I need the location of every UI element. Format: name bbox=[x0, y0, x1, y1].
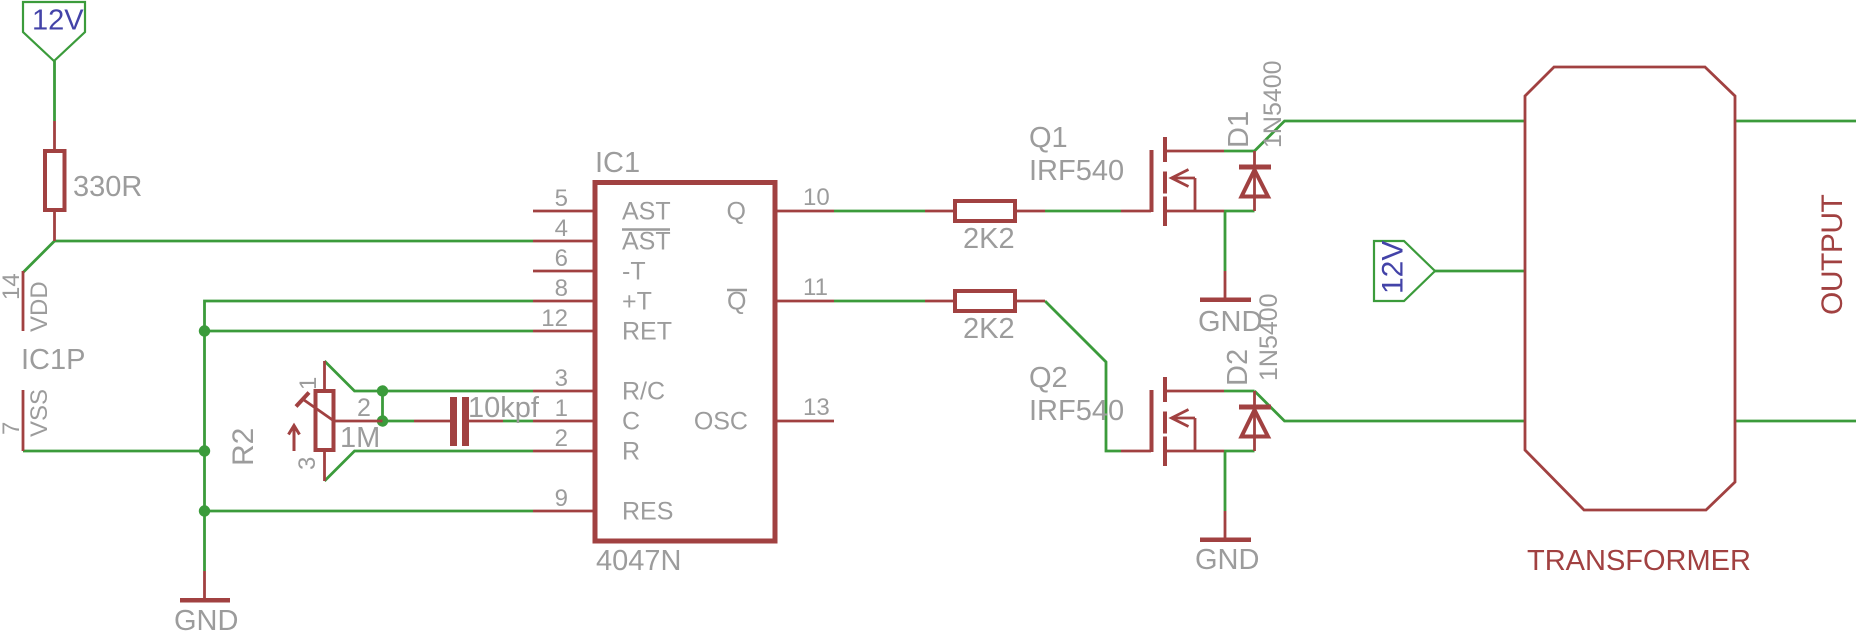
svg-text:330R: 330R bbox=[73, 171, 142, 203]
svg-text:AST: AST bbox=[622, 198, 671, 226]
svg-text:D2: D2 bbox=[1222, 349, 1254, 386]
svg-text:5: 5 bbox=[555, 185, 568, 212]
svg-text:IC1: IC1 bbox=[595, 147, 640, 179]
svg-text:R2: R2 bbox=[227, 428, 260, 466]
svg-text:12V: 12V bbox=[32, 5, 84, 37]
svg-text:VSS: VSS bbox=[26, 389, 53, 437]
svg-text:7: 7 bbox=[0, 422, 25, 435]
svg-text:12: 12 bbox=[541, 305, 568, 332]
svg-text:OUTPUT: OUTPUT bbox=[1816, 195, 1849, 316]
svg-text:10kpf: 10kpf bbox=[468, 392, 540, 424]
svg-text:1N5400: 1N5400 bbox=[1255, 293, 1283, 381]
svg-text:GND: GND bbox=[1195, 544, 1259, 576]
svg-text:1: 1 bbox=[295, 377, 322, 390]
svg-text:4047N: 4047N bbox=[596, 545, 681, 577]
svg-text:3: 3 bbox=[555, 365, 568, 392]
svg-text:4: 4 bbox=[555, 215, 568, 242]
svg-text:GND: GND bbox=[174, 605, 238, 637]
svg-text:GND: GND bbox=[1198, 306, 1262, 338]
svg-text:10: 10 bbox=[803, 184, 830, 211]
svg-text:Q1: Q1 bbox=[1029, 122, 1068, 154]
svg-text:RES: RES bbox=[622, 498, 673, 526]
svg-text:D1: D1 bbox=[1223, 111, 1255, 148]
svg-text:-T: -T bbox=[622, 258, 646, 286]
svg-text:2: 2 bbox=[555, 425, 568, 452]
svg-text:Q2: Q2 bbox=[1029, 362, 1068, 394]
svg-text:1N5400: 1N5400 bbox=[1259, 60, 1287, 148]
svg-text:2K2: 2K2 bbox=[963, 313, 1015, 345]
svg-text:R: R bbox=[622, 438, 640, 466]
svg-text:Q: Q bbox=[727, 288, 746, 316]
svg-text:+T: +T bbox=[622, 288, 652, 316]
svg-text:2: 2 bbox=[357, 394, 371, 422]
svg-text:6: 6 bbox=[555, 245, 568, 272]
svg-text:1: 1 bbox=[555, 395, 568, 422]
svg-text:VDD: VDD bbox=[26, 281, 53, 332]
svg-text:13: 13 bbox=[803, 394, 830, 421]
svg-text:IRF540: IRF540 bbox=[1029, 395, 1124, 427]
svg-text:Q: Q bbox=[727, 198, 746, 226]
svg-text:OSC: OSC bbox=[694, 408, 748, 436]
svg-text:12V: 12V bbox=[1377, 241, 1410, 294]
svg-text:8: 8 bbox=[555, 275, 568, 302]
svg-text:14: 14 bbox=[0, 273, 25, 300]
svg-text:1M: 1M bbox=[340, 422, 380, 454]
svg-text:TRANSFORMER: TRANSFORMER bbox=[1527, 545, 1751, 577]
svg-text:9: 9 bbox=[555, 485, 568, 512]
svg-text:IRF540: IRF540 bbox=[1029, 155, 1124, 187]
svg-text:11: 11 bbox=[803, 274, 828, 301]
svg-text:AST: AST bbox=[622, 228, 671, 256]
svg-text:RET: RET bbox=[622, 318, 672, 346]
svg-text:C: C bbox=[622, 408, 640, 436]
svg-text:3: 3 bbox=[294, 457, 321, 470]
svg-text:IC1P: IC1P bbox=[21, 344, 85, 376]
svg-text:R/C: R/C bbox=[622, 378, 665, 406]
svg-text:2K2: 2K2 bbox=[963, 223, 1015, 255]
